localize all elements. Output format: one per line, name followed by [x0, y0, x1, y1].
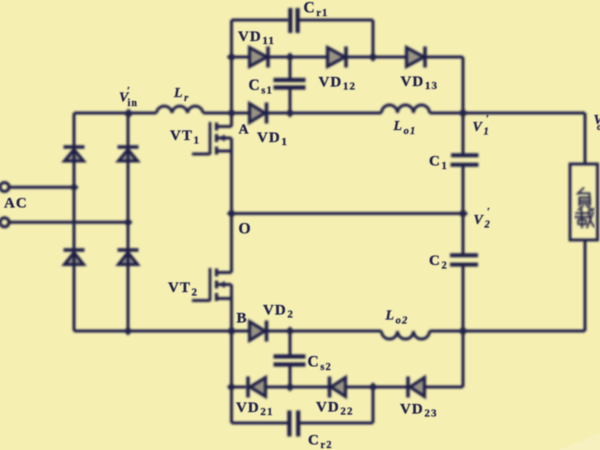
svg-text:A: A	[239, 123, 250, 138]
svg-text:′: ′	[127, 85, 131, 97]
svg-text:O: O	[239, 221, 252, 238]
svg-text:B: B	[237, 311, 248, 327]
svg-text:in: in	[128, 98, 139, 109]
svg-text:′: ′	[487, 206, 491, 218]
svg-text:AC: AC	[4, 196, 28, 212]
svg-text:′: ′	[486, 113, 490, 125]
